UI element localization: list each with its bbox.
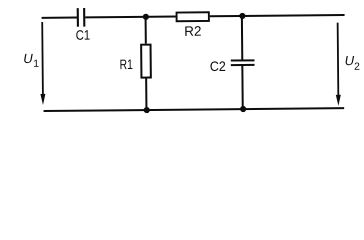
svg-text:1: 1 <box>33 59 39 70</box>
node junction top of C2 <box>239 13 245 19</box>
wire bottom rail <box>44 108 345 111</box>
voltage arrow U2 <box>335 23 341 106</box>
wire C2 lower lead <box>241 66 243 109</box>
wire C2 upper lead <box>241 16 243 60</box>
svg-text:R2: R2 <box>184 24 201 39</box>
svg-text:C1: C1 <box>76 28 91 43</box>
node junction bottom of C2 <box>240 106 246 112</box>
svg-text:R1: R1 <box>120 57 133 72</box>
wire top rail right segment <box>210 15 345 16</box>
svg-text:C2: C2 <box>210 59 226 74</box>
resistor R2 <box>177 12 210 39</box>
label U2 <box>345 53 361 73</box>
voltage arrow U1 <box>40 22 46 105</box>
label U1 <box>23 51 39 70</box>
svg-text:2: 2 <box>354 62 360 73</box>
capacitor C1 <box>75 8 90 43</box>
capacitor C2 <box>210 59 255 74</box>
node junction bottom of R1 <box>144 107 150 113</box>
node junction top of R1 <box>143 14 149 20</box>
wire R1 upper lead <box>145 17 147 44</box>
svg-text:U: U <box>23 51 33 66</box>
wire R1 lower lead <box>145 79 147 110</box>
resistor R1 <box>119 45 150 78</box>
wire top rail middle segment <box>85 16 176 19</box>
wire top rail left segment <box>42 16 77 18</box>
